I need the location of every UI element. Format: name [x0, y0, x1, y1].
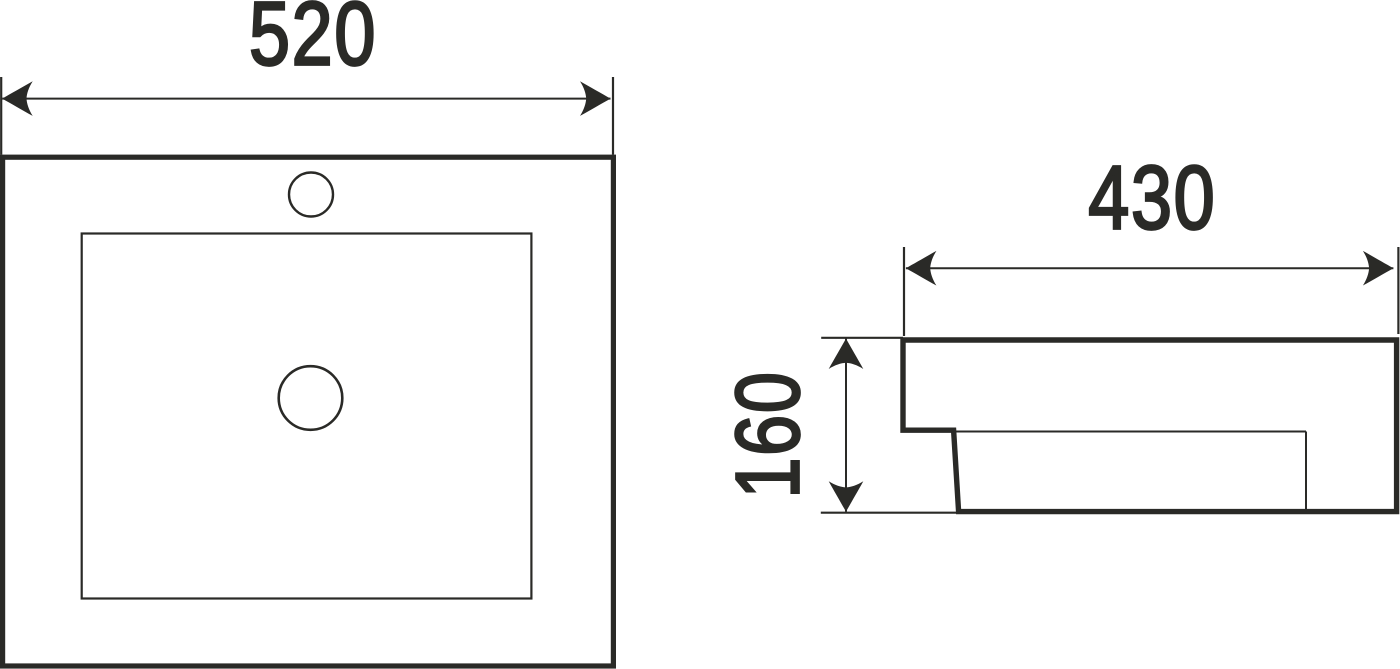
- extension line left of 520: [0, 77, 2, 155]
- side view outer profile: [903, 340, 1397, 512]
- arrowhead 520 left: [2, 81, 33, 116]
- arrowhead 430 left: [906, 251, 937, 286]
- arrowhead 520 right: [580, 81, 611, 116]
- extension line top of 160: [821, 337, 903, 339]
- extension line bottom of 160: [821, 512, 957, 514]
- extension line left of 430: [903, 247, 905, 336]
- dimension line 430: [906, 267, 1394, 269]
- side view inner bottom edge (vertical): [1305, 432, 1307, 510]
- arrowhead 430 right: [1363, 251, 1394, 286]
- svg-text:430: 430: [1088, 149, 1216, 249]
- dimension line 520: [2, 98, 610, 100]
- svg-text:160: 160: [719, 370, 819, 498]
- extension line right of 430: [1397, 247, 1399, 334]
- arrowhead 160 top: [829, 339, 864, 370]
- drain hole: [279, 366, 343, 430]
- top view outer rim (washbasin plan): [3, 157, 614, 666]
- extension line right of 520: [612, 77, 614, 155]
- arrowhead 160 bottom: [829, 481, 864, 512]
- side view inner bottom edge (horizontal): [956, 431, 1306, 433]
- faucet hole: [289, 173, 333, 217]
- dimension line 160 (vertical): [845, 339, 847, 512]
- svg-text:520: 520: [249, 0, 377, 84]
- top view inner basin rectangle: [82, 234, 532, 599]
